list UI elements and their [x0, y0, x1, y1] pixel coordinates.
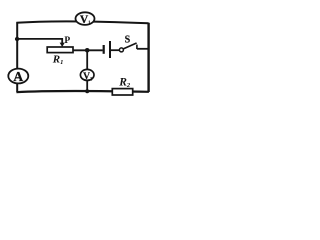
svg-text:R1: R1 — [52, 54, 64, 67]
wire: right rail — [147, 23, 149, 92]
wire: V2 upper lead — [86, 50, 88, 70]
switch S pivot — [119, 48, 123, 52]
switch right contact — [136, 45, 138, 49]
battery negative plate (short) — [103, 45, 105, 54]
switch blade — [123, 43, 136, 49]
svg-text:P: P — [64, 36, 70, 46]
wire: switch to right rail — [137, 48, 149, 50]
wire: branch from left rail to rheostat slider — [17, 39, 62, 43]
node: junction dot above V2 — [85, 48, 90, 53]
wire: V2 lower lead — [86, 80, 88, 92]
ammeter A — [8, 69, 28, 84]
wire: left rail — [16, 22, 18, 92]
node: junction dot below V2 on bottom wire — [85, 89, 89, 93]
svg-text:1: 1 — [88, 20, 91, 26]
slider arrowhead onto rheostat — [60, 43, 65, 47]
wire: rheostat right terminal to battery — [73, 49, 103, 51]
svg-text:R2: R2 — [118, 77, 131, 90]
svg-text:S: S — [125, 34, 131, 45]
wire: bottom side of loop — [16, 91, 149, 92]
wire: top side of loop — [16, 21, 148, 23]
svg-text:A: A — [13, 69, 23, 84]
voltmeter V1 — [76, 12, 95, 25]
node: junction dot on left rail — [15, 37, 19, 41]
voltmeter V2 — [80, 69, 94, 80]
resistor R2 box — [112, 89, 132, 95]
rheostat R1 box — [47, 47, 73, 53]
battery positive plate (long) — [109, 41, 111, 58]
wire: battery to switch — [111, 49, 119, 51]
